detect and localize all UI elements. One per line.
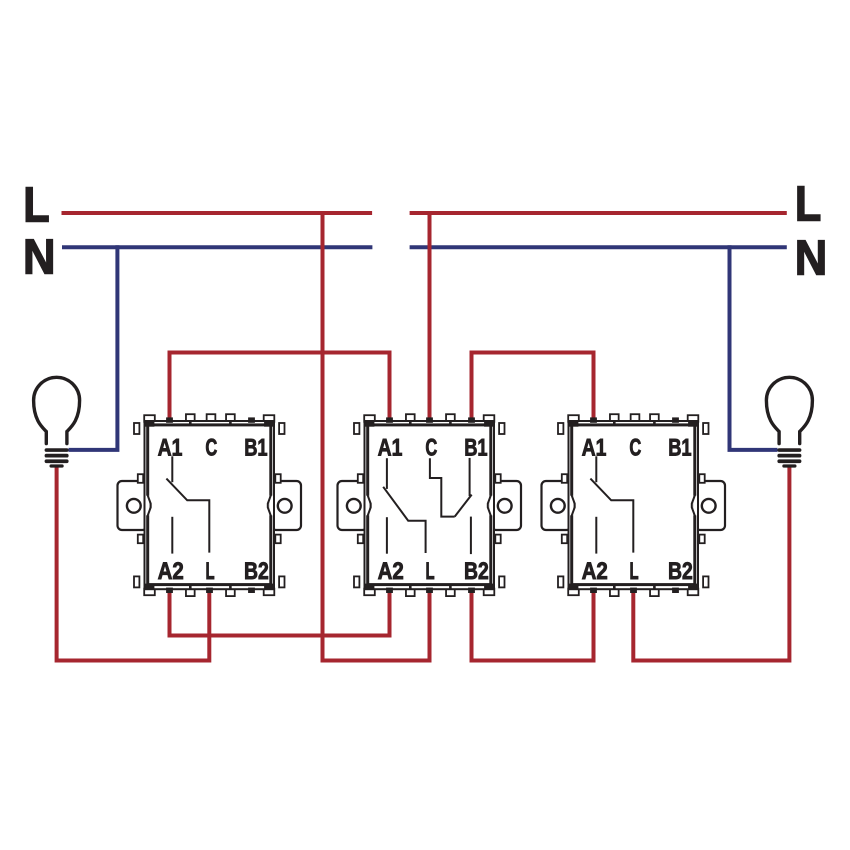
wire L bus to S2 terminal C xyxy=(428,211,432,420)
switch S3 left latch bump xyxy=(570,496,573,516)
switch S2 blade A1-L xyxy=(383,487,425,553)
switch S2 right latch bump xyxy=(489,496,492,516)
wire S3 terminal L to lamp E2 xyxy=(633,465,789,661)
switch S3 corner blocks xyxy=(568,421,578,426)
wire L bus to S2 terminal L xyxy=(323,211,430,661)
svg-text:A1: A1 xyxy=(582,436,607,462)
switch S2 right mounting ear xyxy=(492,481,522,530)
switch S3 bottom tabs xyxy=(610,589,619,597)
svg-text:B2: B2 xyxy=(668,559,693,585)
switch S3 left side clips xyxy=(558,423,563,434)
wire S2 B1 to S3 A1 xyxy=(472,353,594,421)
switch S2 contact stub A2 xyxy=(386,517,388,554)
svg-text:A1: A1 xyxy=(158,436,183,462)
svg-text:N: N xyxy=(23,230,56,285)
switch S2 contact path C xyxy=(430,458,455,516)
switch S1 right mounting ear xyxy=(272,481,302,530)
switch S1 contact stub A1 xyxy=(171,456,173,482)
switch S3 inner frame xyxy=(572,425,695,585)
switch S3 right latch bump xyxy=(693,496,696,516)
switch S2 left side clips xyxy=(354,423,359,434)
switch S2 top tabs xyxy=(406,414,415,422)
switch S3 top tabs xyxy=(610,414,619,422)
svg-text:C: C xyxy=(205,436,217,462)
switch S2 right side clips xyxy=(499,423,504,434)
switch S2 terminal nubs xyxy=(386,417,393,422)
wire N drop to lamp E1 xyxy=(69,245,118,450)
svg-text:B2: B2 xyxy=(244,559,269,585)
switch S1 terminal nubs xyxy=(166,417,173,422)
switch S2 inner frame xyxy=(368,425,491,585)
switch S1 corner tabs xyxy=(144,415,155,422)
wire L bus right segment xyxy=(410,211,787,215)
switch S3 right side clips xyxy=(703,423,708,434)
switch S2 tab stems xyxy=(409,421,412,426)
svg-text:A2: A2 xyxy=(582,559,608,585)
svg-text:L: L xyxy=(426,559,435,585)
svg-text:B1: B1 xyxy=(464,436,487,462)
svg-text:L: L xyxy=(206,559,215,585)
svg-text:A2: A2 xyxy=(378,559,404,585)
switch S3 blade A1-L xyxy=(590,479,633,553)
switch S3 corner tabs xyxy=(568,415,579,422)
switch S2 blade C-B1 xyxy=(455,495,472,517)
wire S1 A1 to S2 A1 xyxy=(170,353,390,421)
switch S1 body xyxy=(145,421,275,589)
svg-text:A1: A1 xyxy=(378,436,403,462)
switch S3 right mounting ear xyxy=(696,481,726,530)
switch S2 contact stub B2 xyxy=(470,517,472,555)
switch S2 left latch bump xyxy=(366,496,369,516)
lamp E1 base tip xyxy=(50,464,64,467)
svg-text:L: L xyxy=(23,178,49,233)
switch S3 contact stub A1 xyxy=(595,456,597,482)
lamp E1 screw base xyxy=(45,448,69,452)
wire N bus right segment xyxy=(410,245,787,249)
svg-text:L: L xyxy=(630,559,639,585)
switch S1 corner blocks xyxy=(144,421,154,426)
svg-text:B1: B1 xyxy=(668,436,691,462)
wire L bus left segment xyxy=(62,211,373,215)
switch S2 corner tabs xyxy=(364,415,375,422)
wire N bus left segment xyxy=(62,245,372,249)
lamp E2 screw base xyxy=(777,448,801,452)
switch S1 right latch bump xyxy=(269,496,272,516)
switch S1 blade A1-L xyxy=(166,479,209,553)
switch S2 bottom tabs xyxy=(406,589,415,597)
svg-text:C: C xyxy=(425,436,437,462)
switch S1 left latch bump xyxy=(146,496,149,516)
switch S2 body xyxy=(365,421,495,589)
switch S3 left mounting ear xyxy=(542,481,572,530)
switch S1 bottom tabs xyxy=(186,589,195,597)
switch S3 tab stems xyxy=(613,421,616,426)
wire N drop to lamp E2 xyxy=(730,245,778,450)
switch S3 contact stub A2 xyxy=(595,517,597,554)
svg-text:C: C xyxy=(629,436,641,462)
svg-text:N: N xyxy=(795,231,828,286)
svg-text:B2: B2 xyxy=(464,559,489,585)
switch S1 contact stub A2 xyxy=(171,517,173,554)
wire lamp E1 to S1 terminal L xyxy=(57,465,210,661)
switch S3 body xyxy=(569,421,699,589)
svg-text:A2: A2 xyxy=(158,559,184,585)
wire S1 A2 to S2 A2 xyxy=(170,587,390,636)
switch S2 left mounting ear xyxy=(338,481,368,530)
switch S2 contact stub A1 xyxy=(386,458,388,489)
lamp E2 base tip xyxy=(782,464,796,467)
lamp E2 glass bulb xyxy=(766,377,812,443)
svg-text:L: L xyxy=(795,177,821,232)
switch S2 contact stub B1 xyxy=(469,458,471,496)
switch S1 top tabs xyxy=(186,414,195,422)
wire S2 B2 to S3 A2 xyxy=(472,587,594,661)
switch S2 corner blocks xyxy=(364,421,374,426)
switch S1 right side clips xyxy=(279,423,284,434)
switch S1 left side clips xyxy=(134,423,139,434)
switch S3 terminal nubs xyxy=(590,417,597,422)
switch S1 left mounting ear xyxy=(118,481,148,530)
switch S1 inner frame xyxy=(148,425,271,585)
lamp E1 glass bulb xyxy=(34,377,80,443)
svg-text:B1: B1 xyxy=(244,436,267,462)
switch S1 tab stems xyxy=(189,421,192,426)
